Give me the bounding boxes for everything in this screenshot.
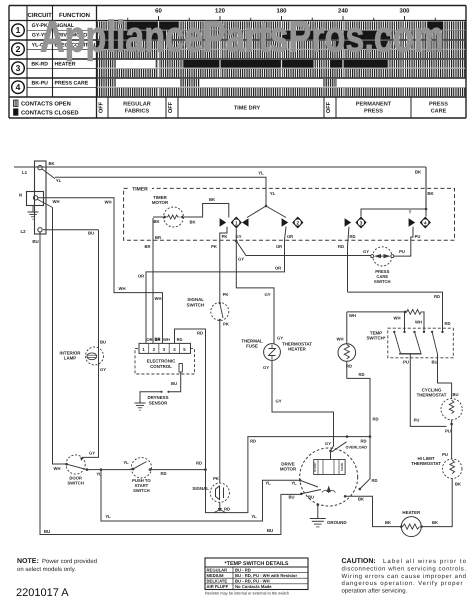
svg-text:WH: WH — [415, 320, 422, 325]
svg-text:RD: RD — [197, 331, 203, 336]
svg-text:1: 1 — [235, 220, 238, 225]
svg-text:BK: BK — [209, 197, 215, 202]
svg-text:THERMOSTAT: THERMOSTAT — [411, 461, 441, 466]
svg-text:REGULAR: REGULAR — [123, 102, 151, 108]
svg-text:YL: YL — [251, 514, 257, 519]
svg-text:AIR FLUFF: AIR FLUFF — [207, 584, 229, 589]
svg-text:RD: RD — [358, 372, 364, 377]
svg-text:N: N — [19, 193, 22, 198]
svg-text:TIME DRY: TIME DRY — [234, 106, 261, 112]
svg-text:BU: BU — [431, 360, 437, 365]
svg-text:BU: BU — [452, 392, 458, 397]
svg-text:SIGNAL: SIGNAL — [187, 297, 204, 302]
svg-text:4: 4 — [424, 220, 427, 225]
svg-text:PU: PU — [415, 234, 421, 239]
svg-text:2: 2 — [16, 44, 21, 54]
svg-text:GY: GY — [89, 451, 95, 456]
svg-text:YL: YL — [258, 171, 264, 176]
svg-text:SENSOR: SENSOR — [149, 401, 168, 406]
svg-text:GY: GY — [363, 249, 369, 254]
svg-text:RD: RD — [434, 294, 440, 299]
svg-text:WH: WH — [105, 200, 112, 205]
svg-text:RD: RD — [349, 234, 355, 239]
svg-text:RD: RD — [160, 471, 166, 476]
svg-text:BK: BK — [455, 482, 461, 487]
svg-text:BU - RD, PU - WH: BU - RD, PU - WH — [235, 579, 270, 584]
svg-text:3: 3 — [16, 63, 21, 73]
svg-text:GROUND: GROUND — [327, 520, 347, 525]
svg-text:CONTACTS OPEN: CONTACTS OPEN — [21, 101, 71, 108]
svg-text:*TEMP SWITCH DETAILS: *TEMP SWITCH DETAILS — [225, 561, 289, 567]
svg-text:disconnection when servicing c: disconnection when servicing controls. — [342, 565, 467, 572]
svg-text:PK: PK — [213, 476, 219, 481]
svg-text:RD: RD — [224, 507, 230, 512]
svg-text:WH: WH — [394, 316, 401, 321]
svg-text:dangerous operation. Verify pr: dangerous operation. Verify proper — [342, 580, 463, 587]
svg-text:YL: YL — [291, 481, 297, 486]
svg-text:MAIN: MAIN — [340, 463, 344, 471]
svg-text:GY: GY — [277, 336, 283, 341]
svg-text:RD: RD — [371, 478, 377, 483]
svg-text:BU: BU — [100, 340, 106, 345]
svg-text:PU: PU — [414, 418, 420, 423]
svg-text:YL: YL — [123, 460, 129, 465]
svg-text:MOTOR: MOTOR — [280, 467, 297, 472]
svg-text:GY: GY — [235, 234, 241, 239]
svg-text:PU: PU — [442, 452, 448, 457]
svg-text:YL: YL — [265, 481, 271, 486]
svg-text:No Contacts Made: No Contacts Made — [235, 584, 272, 589]
svg-text:4: 4 — [16, 82, 21, 92]
svg-text:DRYNESS: DRYNESS — [147, 395, 168, 400]
svg-text:CARE: CARE — [431, 109, 447, 115]
svg-text:BU: BU — [267, 528, 273, 533]
svg-text:WH: WH — [119, 286, 126, 291]
svg-text:PRESS CARE: PRESS CARE — [55, 81, 89, 87]
svg-text:CAUTION:: CAUTION: — [342, 558, 376, 565]
svg-text:BK: BK — [432, 520, 438, 525]
svg-text:BK-RD: BK-RD — [31, 62, 48, 68]
svg-text:YL: YL — [105, 514, 111, 519]
svg-text:PU: PU — [445, 429, 451, 434]
svg-text:HEATER: HEATER — [402, 510, 421, 515]
svg-text:PK: PK — [223, 292, 229, 297]
svg-text:BU: BU — [308, 495, 314, 500]
svg-text:HEATER: HEATER — [288, 347, 307, 352]
svg-text:RD: RD — [372, 417, 378, 422]
svg-text:SWITCH*: SWITCH* — [366, 336, 385, 341]
svg-text:RD: RD — [250, 439, 256, 444]
svg-text:GY: GY — [264, 292, 270, 297]
svg-text:3: 3 — [360, 220, 363, 225]
svg-text:DELICATE: DELICATE — [207, 579, 228, 584]
svg-text:OR: OR — [138, 274, 144, 279]
svg-text:RD: RD — [444, 321, 450, 326]
svg-text:MEDIUM: MEDIUM — [207, 573, 224, 578]
svg-text:PK: PK — [211, 244, 217, 249]
svg-text:RD: RD — [196, 461, 202, 466]
svg-text:LAMP: LAMP — [64, 356, 77, 361]
svg-text:PRESS: PRESS — [364, 109, 383, 115]
svg-text:OR: OR — [275, 266, 281, 271]
svg-text:YL: YL — [270, 191, 276, 196]
svg-text:CONTROL: CONTROL — [150, 364, 172, 369]
svg-text:PK: PK — [223, 322, 229, 327]
svg-text:on select models only.: on select models only. — [17, 566, 76, 573]
svg-text:YL: YL — [56, 178, 62, 183]
svg-text:HEATER: HEATER — [55, 62, 76, 68]
svg-text:BR: BR — [155, 235, 161, 240]
svg-text:SIGNAL: SIGNAL — [192, 486, 209, 491]
svg-text:2201017 A: 2201017 A — [16, 587, 69, 599]
svg-text:BK-PU: BK-PU — [31, 81, 48, 87]
svg-text:Label all wires prior to: Label all wires prior to — [383, 558, 467, 565]
svg-text:BR: BR — [155, 337, 161, 342]
svg-text:BU: BU — [32, 239, 38, 244]
svg-text:operation after servicing.: operation after servicing. — [342, 588, 408, 595]
svg-text:OR: OR — [287, 234, 293, 239]
svg-text:OR: OR — [147, 337, 153, 342]
svg-text:BK: BK — [153, 219, 159, 224]
svg-text:WH: WH — [349, 313, 356, 318]
svg-text:PU: PU — [399, 249, 405, 254]
svg-text:TIMER: TIMER — [132, 187, 148, 193]
svg-text:Wiring errors can cause improp: Wiring errors can cause improper and — [342, 573, 467, 580]
svg-text:WH: WH — [163, 337, 170, 342]
svg-text:PK: PK — [222, 234, 228, 239]
svg-text:BK: BK — [48, 161, 54, 166]
svg-text:BK: BK — [415, 170, 422, 175]
svg-text:SWITCH: SWITCH — [374, 279, 391, 284]
svg-text:L2: L2 — [20, 229, 26, 234]
svg-text:WH: WH — [155, 296, 162, 301]
svg-text:BK: BK — [189, 220, 195, 225]
svg-text:ELECTRONIC: ELECTRONIC — [147, 359, 176, 364]
svg-text:BK: BK — [385, 520, 391, 525]
svg-text:L1: L1 — [22, 170, 28, 175]
svg-text:RD: RD — [177, 337, 183, 342]
svg-text:SWITCH: SWITCH — [187, 303, 204, 308]
svg-text:BK: BK — [427, 191, 434, 196]
svg-text:THERMOSTAT: THERMOSTAT — [417, 393, 447, 398]
svg-text:WH: WH — [54, 466, 61, 471]
svg-text:OFF: OFF — [98, 101, 104, 113]
svg-text:GY: GY — [325, 441, 331, 446]
svg-text:1: 1 — [16, 25, 21, 35]
svg-text:BU: BU — [171, 381, 177, 386]
svg-text:FABRICS: FABRICS — [125, 109, 150, 115]
svg-text:BU - RD, PU - WH with Resistor: BU - RD, PU - WH with Resistor — [235, 573, 297, 578]
svg-text:SWITCH: SWITCH — [67, 481, 84, 486]
svg-text:PU: PU — [403, 360, 409, 365]
svg-text:BU: BU — [288, 495, 294, 500]
svg-text:MOTOR: MOTOR — [152, 200, 169, 205]
svg-text:NOTE:: NOTE: — [17, 558, 39, 565]
svg-text:REGULAR: REGULAR — [207, 567, 228, 572]
svg-text:BU: BU — [88, 231, 94, 236]
svg-text:AppliancePartsPros.com: AppliancePartsPros.com — [40, 13, 444, 62]
svg-text:OFF: OFF — [168, 101, 174, 113]
svg-text:RD: RD — [360, 439, 366, 444]
svg-text:BU: BU — [44, 529, 50, 534]
svg-text:OR: OR — [276, 244, 282, 249]
svg-text:RD: RD — [346, 364, 352, 369]
svg-text:START: START — [313, 462, 317, 472]
svg-text:BU - RD: BU - RD — [235, 567, 251, 572]
svg-text:SWITCH: SWITCH — [133, 488, 150, 493]
svg-text:FUSE: FUSE — [246, 344, 258, 349]
svg-text:BR: BR — [144, 244, 150, 249]
svg-text:GY: GY — [238, 257, 244, 262]
svg-text:PERMANENT: PERMANENT — [356, 102, 392, 108]
svg-text:WH: WH — [337, 337, 344, 342]
svg-text:GY: GY — [263, 365, 269, 370]
svg-text:RD: RD — [338, 244, 344, 249]
svg-text:Resistor may be internal or ex: Resistor may be internal or external to … — [205, 591, 289, 596]
svg-text:GY: GY — [275, 399, 281, 404]
svg-text:T: T — [409, 210, 412, 215]
svg-text:WH: WH — [53, 199, 60, 204]
svg-text:BK: BK — [358, 497, 364, 502]
svg-text:PRESS: PRESS — [429, 102, 448, 108]
svg-text:Power cord provided: Power cord provided — [42, 558, 97, 565]
svg-text:OFF: OFF — [326, 101, 332, 113]
svg-text:2: 2 — [297, 220, 300, 225]
svg-text:GY: GY — [100, 367, 106, 372]
svg-text:OVERLOAD: OVERLOAD — [346, 446, 368, 450]
svg-text:CONTACTS CLOSED: CONTACTS CLOSED — [21, 109, 79, 116]
